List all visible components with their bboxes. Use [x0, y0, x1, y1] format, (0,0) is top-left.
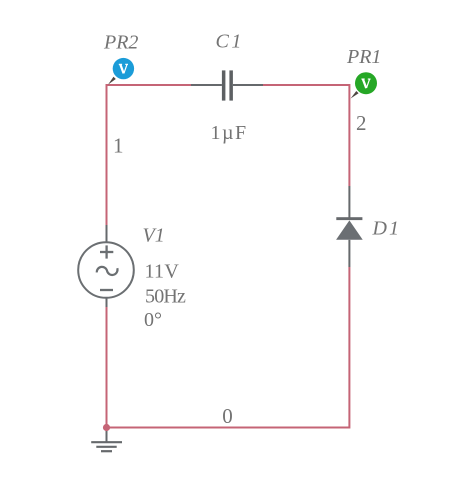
svg-text:1: 1 [113, 134, 124, 158]
svg-text:PR1: PR1 [346, 46, 381, 68]
svg-text:50Hz: 50Hz [145, 286, 186, 308]
svg-text:V1: V1 [143, 225, 165, 247]
svg-text:C1: C1 [216, 31, 244, 53]
svg-text:0: 0 [222, 404, 233, 428]
svg-text:PR2: PR2 [103, 32, 138, 54]
svg-text:1µF: 1µF [211, 122, 248, 144]
svg-text:D1: D1 [372, 217, 401, 239]
svg-text:0°: 0° [144, 309, 162, 331]
svg-text:11V: 11V [145, 261, 180, 283]
svg-text:2: 2 [356, 111, 367, 135]
